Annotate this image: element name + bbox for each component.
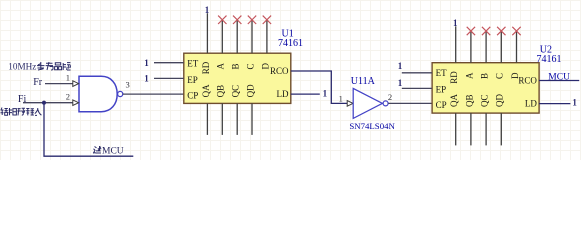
U1 pin A top — [221, 20, 223, 53]
svg-text:QB: QB — [216, 85, 226, 98]
U1 pin B top — [236, 20, 238, 53]
U1 pin D top — [266, 20, 268, 53]
U1 pin QD bottom — [251, 103, 253, 134]
svg-text:CP: CP — [436, 100, 447, 110]
IC U2 74161 body — [432, 63, 539, 113]
svg-text:B: B — [231, 63, 241, 69]
inverter U11A input arrow — [347, 101, 353, 107]
wire Fi to gate pin2 — [23, 102, 73, 104]
svg-text:QD: QD — [495, 94, 505, 107]
svg-text:RD: RD — [201, 61, 211, 74]
svg-text:RCO: RCO — [270, 66, 289, 76]
no-connect X on U1 pin A — [218, 16, 226, 24]
no-connect X on U2 pin D — [512, 27, 520, 35]
wire U1 LD — [291, 93, 320, 95]
U2 pin QD bottom — [500, 113, 502, 145]
wire U2 EP — [402, 87, 432, 89]
svg-text:1: 1 — [205, 5, 210, 15]
svg-text:1: 1 — [339, 93, 343, 103]
label 锁相环输入 (comment text) — [1, 108, 42, 116]
label 送MCU — [93, 146, 123, 157]
wire Fr to gate pin1 — [45, 83, 73, 85]
U1 pin QA bottom — [206, 103, 208, 134]
svg-text:EP: EP — [187, 75, 198, 85]
wire U1 ET — [154, 62, 184, 64]
NAND input arrow pin1 — [73, 81, 79, 87]
U2 pin D top — [516, 31, 518, 63]
svg-text:QA: QA — [449, 94, 459, 107]
svg-text:CP: CP — [187, 91, 198, 101]
no-connect X on U1 pin B — [233, 16, 241, 24]
wire U2 LD — [539, 103, 571, 105]
svg-text:D: D — [260, 63, 270, 70]
U2 pin A top — [470, 31, 472, 63]
wire U1 EP — [154, 77, 184, 79]
svg-text:1: 1 — [144, 58, 149, 68]
wire U2 RCO to MCU — [539, 80, 579, 82]
svg-text:A: A — [216, 63, 226, 70]
svg-text:RCO: RCO — [518, 75, 537, 85]
wire U2 ET — [402, 72, 432, 74]
svg-text:RD: RD — [449, 71, 459, 84]
svg-text:QC: QC — [480, 94, 490, 107]
svg-text:U11A: U11A — [351, 76, 376, 87]
U2 pin C top — [500, 31, 502, 63]
junction on Fi wire — [42, 101, 46, 105]
svg-text:MCU: MCU — [548, 72, 570, 82]
svg-text:B: B — [480, 73, 490, 79]
svg-text:10MHz: 10MHz — [8, 62, 36, 72]
svg-text:ET: ET — [436, 68, 447, 78]
svg-text:2: 2 — [66, 91, 70, 101]
no-connect X on U1 pin C — [248, 16, 256, 24]
U1 pin C top — [251, 20, 253, 53]
svg-text:74161: 74161 — [278, 38, 303, 49]
svg-text:1: 1 — [398, 78, 403, 88]
wire Fi branch down and right to 送MCU — [44, 103, 133, 157]
svg-text:1: 1 — [323, 89, 328, 99]
U2 pin RD top — [455, 26, 457, 62]
U1 pin QC bottom — [236, 103, 238, 134]
wire gate output to U1 CP — [123, 93, 184, 95]
IC U1 74161 body — [184, 53, 291, 103]
U2 pin QA bottom — [455, 113, 457, 145]
U1 pin QB bottom — [221, 103, 223, 134]
svg-text:C: C — [495, 73, 505, 79]
svg-text:QB: QB — [464, 94, 474, 107]
svg-text:QA: QA — [201, 84, 211, 97]
svg-text:1: 1 — [66, 72, 70, 82]
label 10MHz参考晶振 (comment text) — [8, 62, 70, 72]
svg-text:Fr: Fr — [33, 77, 43, 88]
svg-text:LD: LD — [525, 98, 537, 108]
svg-text:74161: 74161 — [537, 54, 562, 65]
U2 pin B top — [485, 31, 487, 63]
sheet background — [0, 0, 581, 160]
svg-text:QC: QC — [231, 85, 241, 98]
wire U11A output to U2 CP — [388, 102, 432, 104]
NAND input arrow pin2 — [73, 100, 79, 106]
svg-text:LD: LD — [277, 89, 289, 99]
no-connect X on U2 pin A — [467, 27, 475, 35]
svg-text:SN74LS04N: SN74LS04N — [349, 121, 395, 131]
svg-text:ET: ET — [187, 59, 198, 69]
svg-text:1: 1 — [453, 18, 458, 28]
svg-text:1: 1 — [144, 74, 149, 84]
svg-text:1: 1 — [572, 97, 577, 107]
svg-text:2: 2 — [388, 92, 392, 102]
svg-text:MCU: MCU — [102, 147, 124, 157]
U1 pin RD top — [206, 13, 208, 53]
no-connect X on U2 pin C — [497, 27, 505, 35]
svg-text:C: C — [245, 63, 255, 69]
NAND output bubble — [118, 91, 123, 96]
inverter U11A triangle — [353, 88, 382, 118]
no-connect X on U2 pin B — [482, 27, 490, 35]
U2 pin QB bottom — [470, 113, 472, 145]
svg-text:A: A — [464, 72, 474, 79]
svg-text:QD: QD — [245, 84, 255, 97]
svg-text:3: 3 — [126, 79, 130, 89]
inverter U11A output bubble — [383, 101, 388, 106]
U2 pin QC bottom — [485, 113, 487, 145]
no-connect X on U1 pin D — [263, 16, 271, 24]
wire U1 RCO to inverter input — [291, 71, 347, 103]
svg-text:1: 1 — [398, 61, 403, 71]
svg-text:EP: EP — [436, 84, 447, 94]
NAND gate body — [79, 76, 117, 111]
